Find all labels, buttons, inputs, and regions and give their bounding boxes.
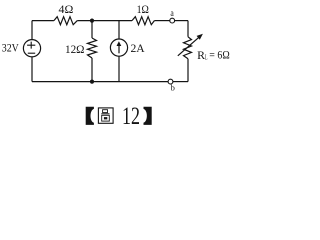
caption glyph "tu" (figure) outer box — [98, 108, 113, 123]
wire bottom left segment (terminal b to left corner) — [32, 81, 168, 83]
wire bottom right segment (corner to terminal b) — [173, 81, 188, 83]
wire right vertical upper (to RL) — [187, 21, 189, 37]
svg-text:12Ω: 12Ω — [65, 42, 85, 56]
voltage source V=32V circle — [23, 40, 40, 57]
current source I=2A circle — [110, 39, 127, 56]
wire top-left horizontal (source to 4-ohm resistor) — [32, 20, 54, 22]
12-ohm branch wire top — [91, 21, 93, 38]
wire right vertical lower (RL to bottom) — [187, 59, 189, 82]
plus sign inside voltage source — [27, 42, 35, 54]
resistor R=12ohm zigzag (vertical) — [88, 38, 97, 58]
wire left vertical upper (source top) — [31, 21, 33, 40]
svg-text:L: L — [205, 53, 208, 61]
caption glyph inner bottom box — [102, 115, 110, 121]
svg-text:R: R — [197, 48, 205, 62]
junction dot top (12-ohm tap node) — [90, 19, 94, 23]
caption glyph inner top small box — [103, 110, 108, 113]
2A branch wire top — [118, 21, 120, 39]
caption closing lenticular bracket — [144, 107, 152, 125]
arrow inside current source (pointing up) — [117, 41, 122, 53]
wire 4-ohm to 1-ohm (through node) — [77, 20, 132, 22]
svg-text:= 6Ω: = 6Ω — [209, 48, 229, 62]
svg-text:32V: 32V — [2, 41, 19, 55]
2A branch wire bottom — [118, 56, 120, 81]
resistor R=4ohm zigzag — [54, 17, 77, 25]
wire terminal a to top-right corner — [175, 20, 188, 22]
caption glyph middle horizontal stroke — [101, 113, 109, 115]
caption glyph inner filled square — [104, 117, 107, 119]
resistor RL zigzag (vertical) — [184, 37, 192, 59]
wire 1-ohm to terminal a — [154, 20, 169, 22]
terminal b open circle — [168, 79, 173, 84]
svg-text:1Ω: 1Ω — [137, 2, 149, 16]
terminal a open circle — [170, 18, 175, 23]
svg-text:2A: 2A — [131, 41, 146, 55]
resistor R=1ohm zigzag — [132, 17, 154, 25]
svg-text:4Ω: 4Ω — [59, 2, 74, 16]
12-ohm branch wire bottom — [91, 58, 93, 82]
svg-text:12: 12 — [122, 103, 140, 130]
svg-text:b: b — [171, 83, 175, 93]
svg-text:a: a — [170, 9, 174, 19]
caption opening lenticular bracket — [86, 107, 94, 125]
junction dot bottom (12-ohm node) — [90, 80, 94, 84]
wire left vertical lower (source bottom) — [31, 57, 33, 82]
minus sign inside voltage source — [28, 52, 35, 54]
arrow through RL (variable resistor) — [178, 34, 203, 56]
